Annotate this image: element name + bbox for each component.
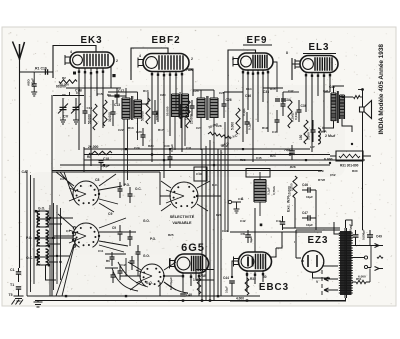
capacitor C48: [180, 294, 186, 296]
svg-text:2.000: 2.000: [290, 183, 294, 191]
svg-text:4.000: 4.000: [236, 297, 244, 301]
node bottom bus knots: [201, 299, 203, 301]
svg-text:0,1μF: 0,1μF: [242, 108, 246, 116]
svg-text:C3: C3: [60, 177, 64, 181]
svg-text:EBF2: EBF2: [151, 35, 180, 46]
capacitor C26: [222, 104, 227, 106]
wire IF1 to EBF2: [142, 92, 149, 104]
node bus junctions: [125, 148, 127, 150]
svg-text:C15: C15: [97, 92, 103, 96]
arrow heater out: [375, 267, 384, 271]
capacitor C35 C38 pair: [275, 99, 280, 101]
node circle term 2: [364, 265, 367, 268]
svg-text:G.O.: G.O.: [143, 219, 150, 223]
svg-text:R2: R2: [62, 76, 66, 80]
svg-text:0,006μF: 0,006μF: [362, 229, 366, 240]
speaker: [360, 107, 365, 112]
node coil squares: [35, 210, 37, 212]
svg-text:O.C.: O.C.: [26, 256, 33, 260]
svg-text:7AB: 7AB: [200, 274, 207, 278]
svg-text:INDIA Modèle 405 Année 1938: INDIA Modèle 405 Année 1938: [378, 44, 385, 135]
svg-text:VARIABLE: VARIABLE: [172, 221, 192, 225]
svg-text:R17: R17: [158, 128, 164, 132]
svg-text:Exc. W.R: Exc. W.R: [287, 196, 291, 212]
IF transformer T1 winding b: [134, 100, 142, 118]
svg-text:4μμF: 4μμF: [249, 236, 253, 243]
wire switch web 4: [120, 262, 184, 290]
svg-text:C5l: C5l: [241, 232, 246, 236]
resistor R32: [245, 278, 249, 295]
wire 6G5 leads: [170, 258, 199, 296]
svg-text:60.000: 60.000: [56, 85, 66, 89]
node 6G5 pin pads: [182, 275, 184, 277]
wire mains dashes: [321, 270, 323, 295]
svg-text:R.C.: R.C.: [212, 183, 218, 187]
svg-text:C20: C20: [160, 93, 166, 97]
svg-text:C9: C9: [112, 226, 116, 230]
svg-text:4: 4: [70, 50, 72, 54]
capacitor C15: [83, 111, 88, 113]
coil G.O.: [37, 211, 40, 227]
capacitor padder 4: [128, 237, 133, 239]
node EBF2 pin pads: [151, 73, 153, 75]
wire EBC3 leads: [232, 248, 276, 292]
resistor R18: [288, 100, 292, 128]
resistor R11 vertical: [146, 98, 150, 124]
resistor R27 6g5: [197, 278, 201, 294]
svg-text:CV: CV: [63, 115, 69, 119]
wire bus 1: [84, 148, 310, 150]
output transformer primary: [331, 93, 336, 121]
wire y92 run: [108, 91, 138, 93]
wire EK3 grid-cap loop: [53, 46, 96, 79]
svg-text:C20: C20: [136, 130, 142, 134]
capacitor C19: [153, 112, 158, 114]
svg-text:C41: C41: [323, 89, 329, 93]
tube 6G5: [170, 254, 209, 273]
svg-text:R28: R28: [290, 165, 296, 169]
resistor R21: [304, 120, 308, 144]
svg-text:C42: C42: [240, 219, 246, 223]
svg-text:R15: R15: [270, 87, 276, 91]
svg-text:C15: C15: [87, 106, 93, 110]
wire S4 arcs: [112, 262, 188, 293]
svg-text:4: 4: [139, 54, 141, 58]
resistor 20.000 inline: [89, 151, 112, 155]
tube EL3: [295, 56, 338, 73]
node switch dots: [98, 193, 100, 195]
capacitor botmid 3: [130, 261, 135, 263]
component box top right: [246, 169, 270, 178]
IF transformer T2 winding a: [197, 98, 205, 118]
svg-text:C39: C39: [301, 104, 307, 108]
svg-text:EF9: EF9: [247, 35, 268, 46]
capacitor padder 5: [136, 252, 141, 254]
svg-text:C41: C41: [238, 197, 244, 201]
svg-text:EZ3: EZ3: [308, 235, 329, 246]
svg-text:C4l: C4l: [276, 219, 281, 223]
wire trimmer tops: [53, 92, 84, 96]
wire EBF2 pin leads: [152, 69, 193, 178]
svg-text:C8: C8: [95, 178, 99, 182]
wire antenna down-lead: [19, 60, 21, 268]
svg-text:0,5µF: 0,5µF: [170, 144, 174, 152]
svg-text:R23: R23: [240, 158, 246, 162]
capacitor C42: [311, 130, 316, 132]
svg-text:C12: C12: [120, 263, 126, 267]
component box 7AB: [196, 270, 214, 281]
tube EK3: [65, 52, 114, 68]
node R31 dots: [329, 162, 331, 164]
svg-text:L.P: L.P: [310, 145, 315, 149]
ground antenna: [12, 296, 24, 305]
capacitor 70uF cathode: [289, 151, 295, 153]
svg-text:C24: C24: [193, 89, 199, 93]
wire EF9 pin leads: [243, 69, 268, 162]
node EK3 pin pads: [73, 72, 76, 75]
svg-text:R9: R9: [107, 93, 111, 97]
svg-text:1.500: 1.500: [306, 132, 310, 140]
node speaker terminal: [361, 88, 364, 91]
component box C40: [194, 167, 207, 181]
svg-text:2: 2: [191, 57, 193, 61]
IF transformer T2a winding a: [172, 94, 180, 117]
capacitor C13: [111, 112, 116, 114]
node EL3 pin pads: [305, 74, 307, 76]
ground bottom: [34, 301, 43, 308]
wire bottom bus 2: [160, 295, 260, 297]
switch S2 wave band: [69, 223, 99, 247]
wire antenna coupling: [34, 71, 53, 73]
wire transformer top to speaker: [324, 75, 353, 97]
svg-text:R25: R25: [168, 233, 174, 237]
wire bus 5: [52, 170, 322, 172]
resistor RG: [356, 280, 366, 283]
svg-text:C47: C47: [302, 211, 308, 215]
svg-text:C6: C6: [76, 91, 80, 95]
svg-text:C37: C37: [288, 89, 294, 93]
capacitor C47: [308, 215, 310, 221]
node switch S2 contacts: [73, 227, 76, 248]
capacitor trimmer CV2: [73, 107, 80, 109]
output transformer core: [337, 91, 338, 123]
wire y90 run2: [193, 89, 214, 91]
wire left risers: [27, 170, 34, 296]
svg-text:50.000: 50.000: [141, 111, 145, 121]
svg-text:50.000: 50.000: [88, 114, 92, 124]
wire transformer top lead: [334, 220, 352, 234]
wire botmid links: [105, 254, 138, 276]
wire bus 3: [84, 159, 365, 161]
svg-text:R14: R14: [246, 87, 252, 91]
svg-text:100.000: 100.000: [184, 109, 188, 120]
capacitor S4 area: [111, 275, 116, 277]
capacitor C49: [353, 235, 359, 237]
svg-text:T1: T1: [10, 283, 14, 287]
ground input: [31, 92, 37, 96]
svg-text:CA: CA: [22, 170, 28, 174]
wire heater run: [350, 246, 372, 268]
svg-text:5.000: 5.000: [231, 122, 235, 130]
capacitor padder 1: [118, 189, 123, 191]
node EBC3 dots: [231, 276, 233, 278]
svg-text:H.P.: H.P.: [321, 130, 327, 134]
svg-text:0,1µF: 0,1µF: [31, 78, 35, 86]
wire switch web 2: [54, 214, 136, 296]
svg-text:O.C.: O.C.: [135, 187, 142, 191]
svg-text:T5: T5: [9, 293, 13, 297]
resistor 50.000 vertical: [93, 104, 97, 130]
coil HF choke speaker: [354, 95, 361, 98]
svg-text:7AB: 7AB: [186, 68, 193, 72]
svg-text:EL3: EL3: [309, 42, 330, 53]
capacitor padder 2: [128, 194, 133, 196]
coil excitation: [254, 180, 266, 203]
svg-text:70μF: 70μF: [284, 148, 291, 152]
wire exc leads: [259, 172, 261, 216]
wire R31 leads: [330, 155, 336, 157]
svg-text:C30: C30: [164, 144, 170, 148]
svg-text:R13: R13: [128, 126, 134, 130]
svg-text:G.O.: G.O.: [143, 254, 150, 258]
coil O.C.: [37, 249, 40, 265]
svg-text:8: 8: [286, 51, 288, 55]
capacitor C46: [308, 187, 310, 193]
svg-text:C44: C44: [223, 276, 229, 280]
svg-text:10μF: 10μF: [306, 195, 313, 199]
wire bus 4: [60, 164, 330, 166]
svg-text:R30: R30: [352, 169, 358, 173]
svg-text:10μF: 10μF: [306, 223, 313, 227]
wire bus 2: [84, 154, 330, 156]
svg-text:C28: C28: [216, 124, 222, 128]
svg-text:2: 2: [116, 59, 118, 63]
wire T2a leads: [175, 117, 185, 150]
capacitor C39: [297, 110, 302, 112]
wire vertical bundle: [202, 140, 218, 300]
wire EK3 pin leads: [79, 66, 111, 166]
wire EF9 grid-cap loop: [228, 50, 256, 80]
capacitor C17: [115, 95, 120, 97]
wire vertical x225: [224, 122, 226, 232]
resistor R31 box: [336, 151, 363, 161]
svg-text:R51: R51: [356, 277, 362, 281]
wire EL3 label underline: [303, 53, 336, 55]
capacitor C34: [281, 104, 286, 106]
capacitor C44: [229, 281, 235, 283]
tube EBF2: [138, 54, 189, 72]
capacitor C51: [245, 235, 251, 237]
svg-text:C1: C1: [10, 268, 15, 272]
svg-text:C40: C40: [196, 172, 202, 176]
wire bus y88: [66, 87, 121, 89]
coil P.O.: [37, 230, 40, 246]
svg-text:1 MΩ: 1 MΩ: [155, 110, 159, 118]
tube EBC3: [234, 252, 272, 271]
resistor AVC diagonal: [208, 132, 231, 139]
power transformer winding: [340, 231, 352, 295]
svg-text:R8: R8: [87, 155, 91, 159]
svg-text:R10: R10: [143, 89, 149, 93]
svg-text:P.O.: P.O.: [124, 183, 130, 187]
svg-text:R?2ℓ: R?2ℓ: [318, 178, 326, 182]
wire vertical x221: [220, 150, 222, 296]
ground trimmer 1: [60, 120, 66, 124]
wire vertical EF9 drop: [227, 80, 229, 232]
svg-text:50: 50: [263, 275, 267, 279]
coil filter choke: [318, 128, 320, 144]
wire y92 run5: [283, 91, 299, 93]
svg-text:C36: C36: [245, 94, 251, 98]
squiggle mains filter: [377, 256, 383, 259]
capacitor C2 antenna: [16, 287, 21, 289]
capacitor C50: [367, 235, 373, 237]
misc small value labels: [60, 87, 358, 267]
wire right column: [352, 269, 370, 283]
arrow HT out: [375, 244, 384, 248]
wire y96 run6: [108, 95, 126, 97]
tube EF9: [233, 53, 273, 70]
svg-text:2 Mωf: 2 Mωf: [325, 134, 336, 138]
IF transformer T2a winding b: [182, 94, 189, 117]
switch S3 selectivity: [166, 182, 198, 208]
svg-text:C49: C49: [376, 235, 382, 239]
wire bus left riser: [83, 147, 85, 172]
wire y88 run4: [263, 87, 283, 89]
svg-text:P.O.: P.O.: [26, 236, 32, 240]
switch S1 wave band: [69, 181, 99, 205]
IF transformer T1 core: [132, 96, 133, 120]
IF transformer T2 winding b: [210, 98, 218, 118]
wire switch web 1: [56, 172, 122, 212]
svg-text:C46: C46: [302, 183, 308, 187]
svg-text:SÉLECTIVITÉ: SÉLECTIVITÉ: [170, 214, 195, 219]
capacitor C41b: [280, 222, 285, 224]
svg-text:8.000μμF: 8.000μμF: [169, 277, 173, 290]
svg-text:C33: C33: [263, 90, 269, 94]
arrow mains 2: [324, 288, 338, 292]
svg-text:C11: C11: [98, 249, 104, 253]
svg-text:0,1μF: 0,1μF: [266, 187, 270, 195]
capacitor botmid 1: [110, 257, 115, 259]
resistor R12 vertical: [186, 100, 190, 128]
capacitor C27b: [190, 106, 195, 108]
arrow mains 1: [324, 277, 338, 281]
svg-text:C14: C14: [222, 229, 228, 233]
capacitor botmid 2: [118, 271, 123, 273]
capacitor padder 3: [118, 232, 123, 234]
wire T2 leads: [201, 90, 214, 150]
wire switch web 3: [160, 181, 221, 211]
capacitor C35: [275, 120, 280, 122]
svg-text:C4: C4: [66, 229, 70, 233]
node coil link dots: [49, 217, 51, 219]
svg-text:10μF: 10μF: [224, 286, 228, 293]
wire transformer bottom: [322, 119, 352, 132]
capacitor trimmer CV1: [60, 107, 67, 109]
svg-text:C26: C26: [226, 98, 232, 102]
svg-text:C18: C18: [103, 157, 109, 161]
svg-text:R6: R6: [106, 259, 110, 263]
svg-text:R26: R26: [216, 213, 222, 217]
scan speckle noise: [4, 29, 393, 304]
svg-text:C31: C31: [186, 146, 192, 150]
svg-text:10.000μμF: 10.000μμF: [349, 224, 353, 238]
node EBC3 pin pads: [246, 273, 248, 275]
switch S4 bottom: [136, 264, 164, 286]
capacitor C23: [168, 157, 173, 159]
wire speaker down lead: [362, 112, 364, 230]
svg-text:EK3: EK3: [80, 35, 102, 46]
svg-text:C5: C5: [62, 93, 66, 97]
wire transformer bottom lead: [230, 298, 346, 301]
capacitor C16 inline: [45, 69, 47, 75]
svg-text:R24: R24: [270, 154, 276, 158]
jack pickup: [228, 200, 231, 203]
capacitor C38: [245, 122, 250, 124]
capacitor C1 series antenna: [16, 272, 21, 274]
resistor R2: [59, 80, 77, 84]
svg-text:G.O.: G.O.: [146, 281, 153, 285]
IF transformer T2a core: [179, 92, 181, 119]
resistor R16: [236, 108, 240, 134]
wire HT run: [350, 245, 380, 247]
svg-text:C9: C9: [108, 212, 112, 216]
power transformer core: [345, 228, 347, 298]
wire coil links: [36, 211, 56, 280]
svg-text:R31 301-800: R31 301-800: [340, 164, 359, 168]
wire right mid runs: [230, 190, 340, 232]
svg-text:C25: C25: [219, 91, 225, 95]
node EF9 pin pads: [242, 71, 244, 73]
wire EL3 pin leads: [306, 72, 330, 152]
wire EBF2 grid-cap loop: [131, 48, 168, 80]
svg-text:G.O.: G.O.: [38, 207, 45, 211]
svg-text:R29: R29: [318, 169, 324, 173]
wire coil feed risers: [50, 203, 61, 296]
svg-text:C52: C52: [330, 173, 336, 177]
wire coil links right: [49, 218, 73, 262]
svg-text:0,1µF: 0,1µF: [101, 164, 110, 168]
svg-text:0,04Ω: 0,04Ω: [294, 111, 298, 120]
resistor bias EK3: [103, 100, 107, 126]
svg-text:0,7MA: 0,7MA: [272, 185, 276, 195]
svg-text:C29: C29: [134, 146, 140, 150]
wire EL3 grid lead: [292, 58, 300, 80]
svg-text:C22: C22: [118, 128, 124, 132]
svg-text:C45: C45: [256, 156, 262, 160]
node circle term 1: [364, 256, 367, 259]
svg-text:4: 4: [232, 57, 234, 61]
svg-text:6G5: 6G5: [181, 242, 205, 254]
svg-text:P.O.: P.O.: [150, 237, 156, 241]
capacitor C20: [141, 135, 146, 137]
tube EZ3: [302, 251, 324, 273]
svg-text:R32: R32: [250, 277, 256, 281]
svg-text:C43: C43: [272, 130, 278, 134]
wire y96 run3: [224, 91, 243, 93]
svg-text:20.000: 20.000: [88, 145, 98, 149]
svg-text:R20: R20: [148, 144, 154, 148]
svg-text:R19: R19: [262, 126, 268, 130]
svg-text:C32: C32: [222, 144, 228, 148]
IF transformer T2 core: [207, 96, 208, 120]
capacitor C18: [99, 161, 104, 163]
wire EZ3 leads: [313, 266, 339, 278]
svg-text:150: 150: [299, 134, 303, 140]
wire vertical left x52: [51, 95, 53, 172]
ground trimmer 2: [73, 120, 79, 124]
